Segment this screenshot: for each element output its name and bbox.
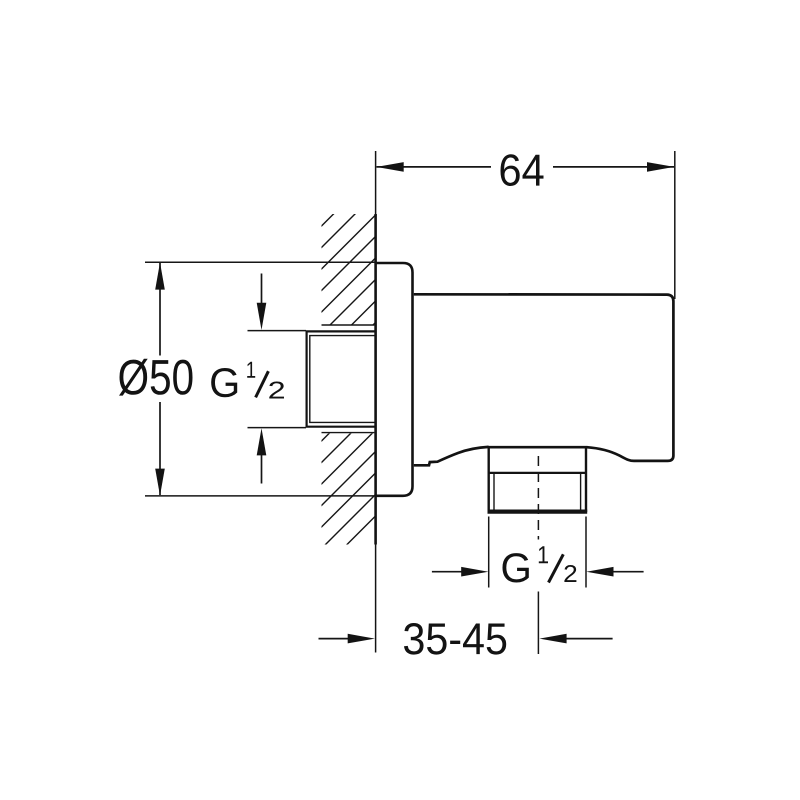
wall face line [375, 151, 377, 653]
pipe thread root lines [310, 336, 376, 423]
dimension D50 text [119, 359, 192, 396]
nipple thread root lines [494, 474, 581, 510]
wall G 1/2 label [211, 362, 284, 399]
pipe thread G1/2 behind wall [307, 331, 376, 426]
dimension D50 line [159, 263, 161, 495]
escutcheon flange [376, 263, 413, 496]
dimension 64 text [501, 154, 544, 186]
outlet nipple G1/2 [488, 447, 588, 512]
dimension 64 line [377, 166, 675, 168]
nipple dim extension lines [489, 517, 586, 588]
dimension D50 arrowheads [155, 262, 165, 495]
nipple centerline [537, 456, 539, 540]
dim 35-45 arrows [319, 638, 613, 640]
nipple G 1/2 label [503, 546, 577, 582]
dim 35-45 centerline extension [537, 592, 539, 655]
nipple dim arrows [432, 571, 644, 573]
dim 35-45 text [404, 623, 506, 655]
dimension D50 extension lines [145, 262, 376, 496]
dimension 64 arrowheads [377, 162, 675, 172]
wall hatching [2, 212, 680, 546]
thread dim arrows [261, 274, 263, 484]
body outline [414, 294, 674, 465]
thread dim extension lines [248, 331, 307, 428]
wall hole edge lines [322, 325, 375, 433]
dimension 64 extension line right [674, 151, 676, 299]
